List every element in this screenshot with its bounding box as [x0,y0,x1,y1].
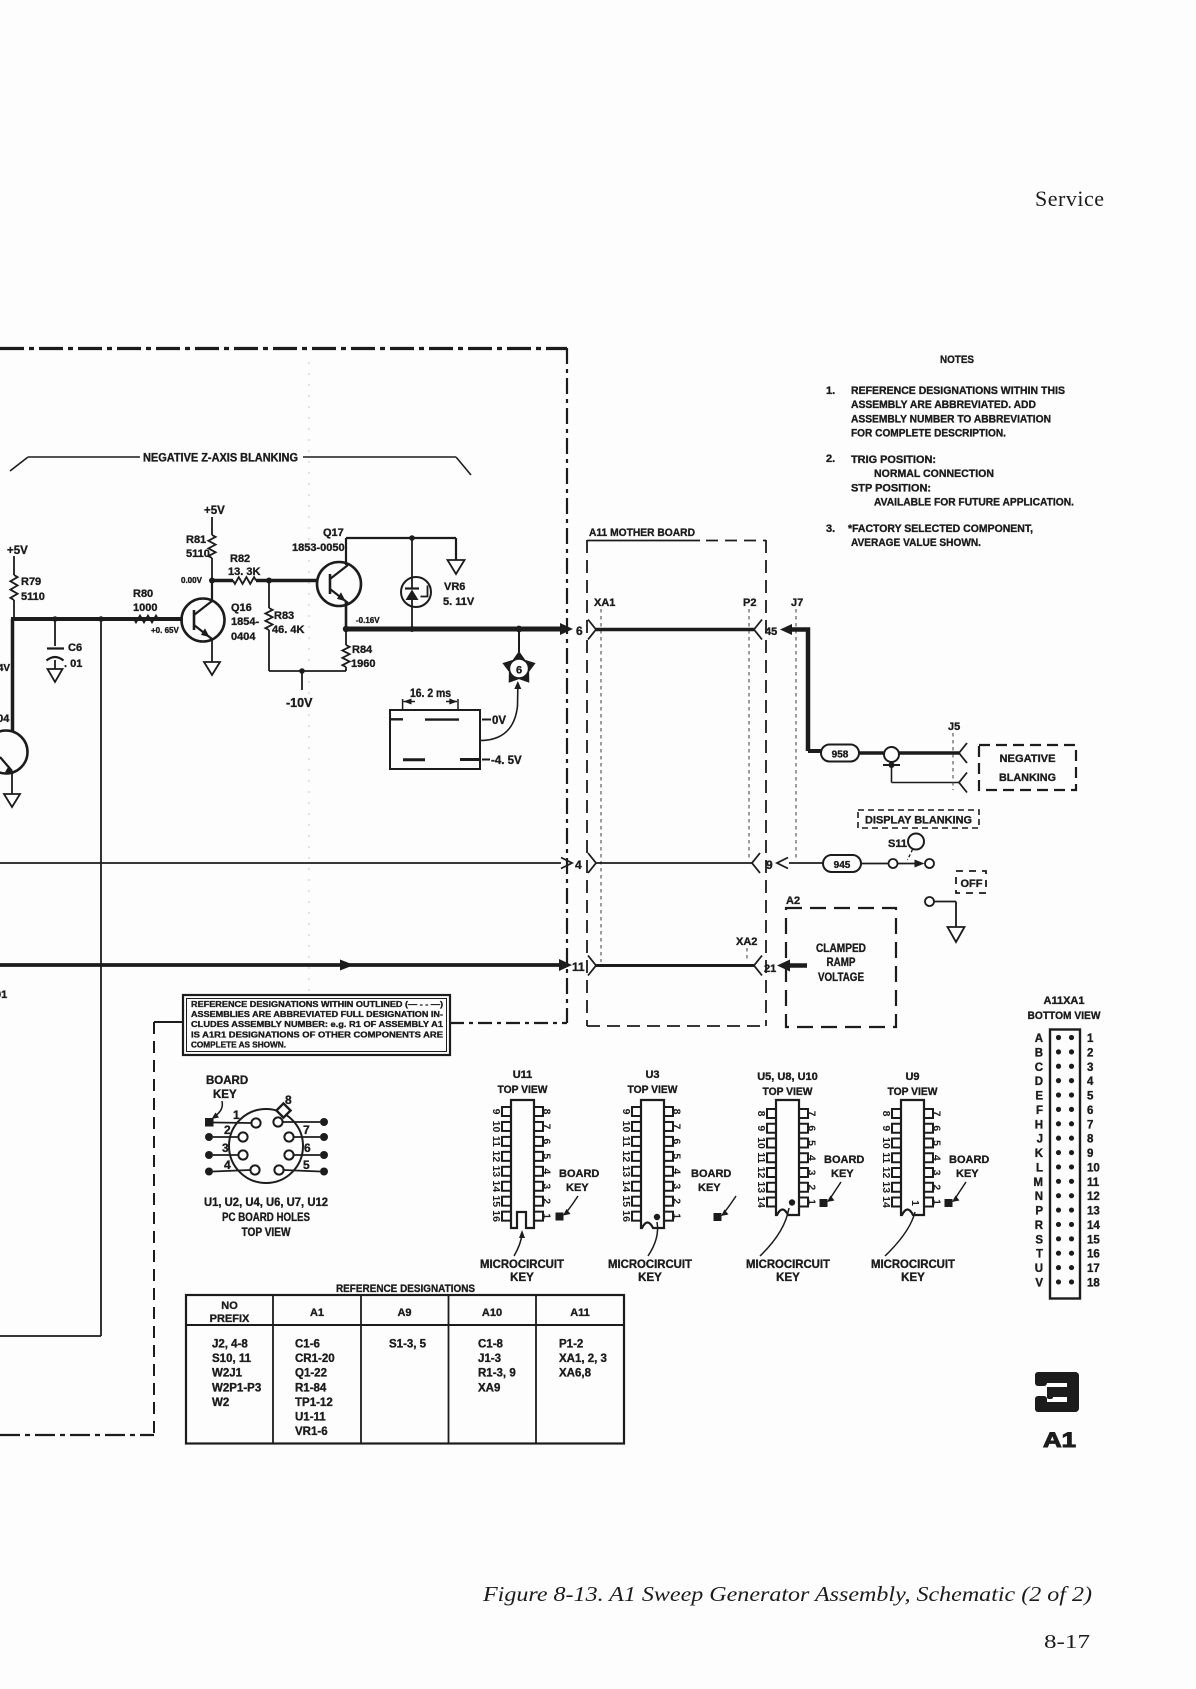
svg-text:V: V [1035,1277,1043,1289]
svg-text:1: 1 [541,1213,553,1219]
svg-text:4: 4 [224,1158,231,1172]
U3 pin 12 / 5 [632,1152,641,1161]
svg-text:U5, U8, U10: U5, U8, U10 [757,1071,818,1083]
svg-text:BOARD: BOARD [691,1168,731,1180]
U9 pin 12 / 3 [892,1168,901,1177]
svg-text:Q1-22: Q1-22 [295,1368,327,1380]
svg-text:5: 5 [541,1153,553,1159]
reference designations note box [183,995,450,1055]
ground arrow top right [448,560,465,574]
svg-text:B: B [1035,1047,1043,1059]
svg-text:TOP VIEW: TOP VIEW [628,1084,679,1096]
svg-text:H: H [1035,1119,1043,1131]
mother board right boundary [765,540,767,1026]
svg-text:XA6,8: XA6,8 [559,1368,592,1380]
svg-text:TOP VIEW: TOP VIEW [242,1227,291,1239]
svg-text:2: 2 [1087,1047,1093,1059]
svg-text:1: 1 [233,1108,240,1122]
svg-text:1: 1 [931,1199,943,1205]
svg-text:MICROCIRCUIT: MICROCIRCUIT [480,1259,564,1271]
resistor R81 [208,535,215,558]
svg-text:13: 13 [1087,1206,1100,1218]
svg-text:A2: A2 [786,895,800,907]
svg-text:R81: R81 [186,534,206,546]
svg-text:Q16: Q16 [231,602,252,614]
svg-text:10: 10 [880,1137,892,1149]
svg-text:12: 12 [620,1151,632,1163]
svg-text:MICROCIRCUIT: MICROCIRCUIT [746,1259,830,1271]
svg-text:6: 6 [516,665,522,677]
node Q17 emitter/R84 junction [343,626,349,632]
svg-text:6: 6 [1087,1105,1093,1117]
wire OFF to ground [934,901,956,903]
socket hole pin 4 [250,1165,259,1174]
svg-text:NOTES: NOTES [940,354,974,366]
A11XA1 row E/5 [1056,1092,1061,1097]
socket hole pin 1 [251,1118,260,1127]
wire Q17 emitter down [345,602,348,629]
svg-text:9: 9 [620,1109,632,1115]
resistor R79 [10,575,17,600]
node junction vertical feed [98,616,104,622]
svg-text:VR1-6: VR1-6 [295,1426,328,1438]
wire main base line left [11,617,183,621]
board key arrow [215,1101,222,1116]
svg-text:9: 9 [490,1109,502,1115]
transistor Q16 [182,599,225,642]
svg-text:FOR COMPLETE DESCRIPTION.: FOR COMPLETE DESCRIPTION. [851,428,1006,440]
wire connector shield to J5 bottom [891,765,893,783]
waveform 0V label [482,719,491,721]
svg-text:2: 2 [931,1184,943,1190]
svg-text:U: U [1035,1263,1043,1275]
svg-text:7: 7 [931,1111,943,1117]
U9 pin 11 / 4 [892,1153,901,1162]
svg-text:18: 18 [1087,1277,1100,1289]
A11XA1 row D/4 [1056,1078,1061,1083]
svg-text:3: 3 [806,1170,818,1176]
svg-text:5. 11V: 5. 11V [443,596,475,608]
svg-text:10: 10 [620,1121,632,1133]
svg-text:1960: 1960 [351,658,375,670]
capacitor C6 [54,619,56,646]
svg-text:8: 8 [285,1093,292,1107]
svg-text:CLUDES ASSEMBLY NUMBER: e.g.: CLUDES ASSEMBLY NUMBER: e.g. R1 OF ASSEM… [191,1019,443,1029]
svg-text:9: 9 [880,1125,892,1131]
wire top rail corner down [455,538,457,560]
svg-text:4: 4 [931,1155,943,1161]
svg-text:A11: A11 [570,1307,590,1319]
svg-text:DISPLAY BLANKING: DISPLAY BLANKING [865,815,972,827]
wire stub clamped ramp [789,963,807,968]
node VR6 top junction [409,535,415,541]
socket hole pin 5 [274,1165,283,1174]
svg-text:3: 3 [541,1183,553,1189]
svg-text:16: 16 [490,1210,502,1222]
svg-text:R80: R80 [133,588,153,600]
wire long vertical down-left [100,619,102,1336]
U5 microcircuit key callout [760,1208,789,1256]
svg-text:7: 7 [1087,1119,1093,1131]
svg-text:12: 12 [755,1167,767,1179]
reference designations table frame [186,1295,624,1444]
svg-text:10: 10 [1087,1162,1100,1174]
waveform box [390,710,480,769]
svg-text:Service: Service [1035,186,1104,211]
svg-text:1854-: 1854- [231,616,259,628]
svg-text:W2P1-P3: W2P1-P3 [212,1382,261,1394]
node star junction [516,626,523,633]
svg-text:A: A [1035,1033,1043,1045]
svg-text:R79: R79 [21,576,41,588]
star waveform node 6 [518,629,520,652]
svg-text:TOP VIEW: TOP VIEW [888,1086,939,1098]
svg-text:J7: J7 [791,597,803,609]
U11 pin 13 / 4 [502,1167,511,1176]
svg-text:KEY: KEY [510,1272,534,1284]
svg-text:ASSEMBLY ARE ABBREVIATED. ADD: ASSEMBLY ARE ABBREVIATED. ADD [851,399,1036,411]
svg-text:PC BOARD HOLES: PC BOARD HOLES [222,1212,310,1224]
svg-text:Q17: Q17 [323,527,344,539]
svg-text:5110: 5110 [21,591,45,603]
assembly A2 box [786,908,896,1027]
svg-text:P1-2: P1-2 [559,1339,583,1351]
U9 board key [945,1199,953,1207]
svg-text:13: 13 [490,1165,502,1177]
node -10V junction [299,668,305,674]
section number 3 [1035,1372,1079,1412]
svg-text:*FACTORY SELECTED COMPONENT,: *FACTORY SELECTED COMPONENT, [848,523,1033,535]
svg-text:16: 16 [1087,1249,1100,1261]
svg-text:12: 12 [880,1167,892,1179]
arrow into P2-45 [780,624,792,635]
svg-text:T: T [1036,1249,1043,1261]
board key square [205,1118,214,1127]
ground below OFF [948,927,965,942]
svg-text:404: 404 [0,713,10,725]
svg-text:3: 3 [1087,1062,1093,1074]
svg-text:BOARD: BOARD [206,1075,248,1087]
svg-text:5: 5 [931,1140,943,1146]
A11XA1 row K/9 [1056,1150,1061,1155]
U11 microcircuit key callout [514,1234,522,1256]
assembly A1 outline top border [0,347,567,350]
svg-text:3: 3 [931,1170,943,1176]
svg-text:A11 MOTHER BOARD: A11 MOTHER BOARD [589,527,695,539]
svg-text:17: 17 [1087,1263,1100,1275]
svg-text:8: 8 [671,1109,683,1115]
wire junction to Q17 base [269,579,318,583]
svg-text:TOP VIEW: TOP VIEW [763,1086,814,1098]
svg-text:13: 13 [755,1181,767,1193]
svg-text:XA9: XA9 [478,1382,500,1394]
svg-text:8: 8 [880,1111,892,1117]
A11XA1 row C/3 [1056,1064,1061,1069]
svg-text:KEY: KEY [698,1182,721,1194]
U9 pin 9 / 6 [892,1124,901,1133]
svg-text:4: 4 [541,1168,553,1174]
svg-text:R83: R83 [274,610,294,622]
svg-text:5: 5 [1087,1091,1094,1103]
svg-text:45: 45 [765,626,777,638]
U3 pin 14 / 3 [632,1182,641,1191]
svg-text:KEY: KEY [213,1089,237,1101]
wire 958 to connector [859,751,884,755]
switch S11 contact right [925,859,934,868]
svg-text:C1-8: C1-8 [478,1339,504,1351]
assembly A1 outline left border (dashed vertical) [153,1022,155,1435]
negative blanking destination box [979,745,1076,790]
svg-text:01: 01 [0,989,7,1001]
svg-text:14: 14 [755,1196,767,1208]
svg-text:8: 8 [1087,1134,1094,1146]
svg-text:S11: S11 [888,838,907,850]
svg-text:6: 6 [671,1138,683,1144]
mother board top bracket [587,540,700,542]
svg-text:P: P [1035,1206,1043,1218]
svg-text:12: 12 [490,1151,502,1163]
svg-text:15: 15 [1087,1234,1100,1246]
ground below left transistor [4,794,20,807]
svg-text:CR1-20: CR1-20 [295,1353,335,1365]
svg-text:NEGATIVE Z-AXIS BLANKING: NEGATIVE Z-AXIS BLANKING [143,453,298,465]
svg-text:3.: 3. [826,523,835,535]
wire left transistor emitter down [11,773,13,794]
connector bracket XA1-6 [588,620,596,640]
U5, U8, U10 pin 13 / 2 [767,1183,776,1192]
A11XA1 row T/16 [1056,1251,1061,1256]
svg-text:U9: U9 [905,1071,919,1083]
svg-text:F: F [1036,1105,1043,1117]
svg-text:6: 6 [806,1125,818,1131]
svg-text:2: 2 [806,1184,818,1190]
U3 pin 16 / 1 [632,1212,641,1221]
U5, U8, U10 pin 9 / 6 [767,1124,776,1133]
wire J7 to P2 thick [791,627,810,632]
svg-text:R82: R82 [230,553,250,565]
svg-text:4: 4 [671,1168,683,1174]
socket circle [229,1109,303,1183]
A11XA1 row A/1 [1056,1035,1061,1040]
svg-text:XA2: XA2 [736,936,757,948]
svg-text:6: 6 [576,624,583,638]
U5, U8, U10 pin 8 / 7 [767,1109,776,1118]
svg-text:CLAMPED: CLAMPED [816,943,866,955]
wire pin 11 row [0,963,561,967]
svg-text:COMPLETE AS SHOWN.: COMPLETE AS SHOWN. [191,1039,286,1049]
svg-text:16. 2 ms: 16. 2 ms [410,688,451,700]
svg-text:KEY: KEY [638,1272,662,1284]
svg-text:R84: R84 [352,644,373,656]
svg-text:8: 8 [541,1109,553,1115]
svg-text:15: 15 [490,1195,502,1207]
svg-text:KEY: KEY [901,1272,925,1284]
A11XA1 row M/11 [1056,1179,1061,1184]
U11 pin 10 / 7 [502,1122,511,1131]
svg-text:XA1: XA1 [594,597,615,609]
svg-text:0V: 0V [492,715,506,727]
svg-text:OFF: OFF [961,878,983,890]
svg-text:14: 14 [620,1180,632,1192]
A11XA1 row J/8 [1056,1136,1061,1141]
svg-text:5: 5 [806,1140,818,1146]
wire Q16 collector up [211,581,213,602]
svg-text:1: 1 [806,1199,818,1205]
svg-text:1000: 1000 [133,602,157,614]
svg-text:4: 4 [806,1155,818,1161]
bracket J5 bottom [959,773,967,793]
svg-text:-10V: -10V [286,696,313,710]
arrow into XA2-21 [777,960,790,972]
zener diode VR6 [411,538,413,578]
wire R81 junction to R82 [212,579,233,583]
svg-text:2: 2 [541,1198,553,1204]
wire XA1-6 to P2-45 [596,628,754,632]
assembly A1 outline right border [566,348,568,1023]
mother board bottom boundary [587,1025,766,1027]
svg-text:14: 14 [1087,1220,1100,1232]
svg-text:15: 15 [620,1195,632,1207]
svg-text:11: 11 [572,960,585,974]
svg-text:NORMAL CONNECTION: NORMAL CONNECTION [874,468,994,480]
node R82/R83/Q17 junction [266,578,272,584]
svg-text:R1-3, 9: R1-3, 9 [478,1368,516,1380]
svg-text:S10, 11: S10, 11 [212,1353,252,1365]
svg-text:1: 1 [1087,1033,1094,1045]
connector bracket P2-45 [754,620,762,640]
svg-text:9: 9 [766,858,773,872]
svg-text:1: 1 [909,1200,921,1206]
svg-text:A1: A1 [1043,1429,1076,1452]
svg-text:C6: C6 [68,642,82,654]
svg-text:L: L [1036,1162,1043,1174]
svg-text:J2, 4-8: J2, 4-8 [212,1339,248,1351]
U5, U8, U10 pin 12 / 3 [767,1168,776,1177]
U9 pin 14 / 1 [892,1198,901,1207]
svg-text:S: S [1035,1234,1043,1246]
svg-text:16: 16 [620,1210,632,1222]
U3 pin 11 / 6 [632,1137,641,1146]
A11XA1 row R/14 [1056,1222,1061,1227]
svg-text:ASSEMBLY NUMBER TO ABBREVIATIO: ASSEMBLY NUMBER TO ABBREVIATION [851,413,1051,425]
svg-text:6: 6 [931,1125,943,1131]
svg-text:W2: W2 [212,1397,229,1409]
socket hole pin 6 [284,1150,293,1159]
svg-text:+4V: +4V [0,663,10,674]
svg-text:U1, U2, U4, U6, U7, U12: U1, U2, U4, U6, U7, U12 [204,1197,328,1209]
svg-text:A11XA1: A11XA1 [1044,995,1085,1007]
svg-text:9: 9 [755,1125,767,1131]
arrow from waveform into star [480,689,518,741]
U3 pin 15 / 2 [632,1197,641,1206]
svg-text:A9: A9 [397,1307,411,1319]
bracket J5 top [959,743,967,763]
svg-text:2: 2 [671,1198,683,1204]
U3 pin 13 / 4 [632,1167,641,1176]
svg-text:5: 5 [303,1158,310,1172]
svg-text:11: 11 [880,1152,892,1163]
wire Q17 collector top rail [346,537,456,539]
svg-text:U1-11: U1-11 [295,1412,326,1424]
svg-text:N: N [1035,1191,1043,1203]
svg-text:11: 11 [755,1152,767,1163]
U5, U8, U10 pin 10 / 5 [767,1139,776,1148]
svg-text:1: 1 [671,1213,683,1219]
svg-text:12: 12 [1087,1191,1100,1203]
connector bracket XA1-11 [588,956,596,976]
coax connector W2J1 [884,747,899,762]
wire pin 6 into XA1 [560,623,573,635]
svg-text:NO: NO [221,1300,238,1312]
svg-text:TRIG POSITION:: TRIG POSITION: [851,454,936,466]
svg-text:13: 13 [620,1165,632,1177]
node 0.00V junction [209,578,215,584]
svg-text:2.: 2. [826,453,835,465]
svg-text:C: C [1035,1062,1043,1074]
wire corner down to Q at left edge [11,619,15,731]
svg-text:14: 14 [490,1180,502,1192]
svg-text:-0.16V: -0.16V [356,616,380,625]
svg-text:BOARD: BOARD [559,1168,599,1180]
svg-text:VR6: VR6 [444,581,465,593]
fold crease line [308,362,310,1008]
U3 pin 9 / 8 [632,1107,641,1116]
wire connector to J5 top [899,751,959,755]
open arrow into P2-9 [777,858,788,869]
wire Q16 emitter down [211,639,213,662]
svg-text:BOARD: BOARD [824,1154,864,1166]
display blanking box [858,810,979,828]
arrow mid pin 11 [340,960,354,971]
U9 pin 8 / 7 [892,1109,901,1118]
A11XA1 row N/12 [1056,1193,1061,1198]
svg-text:Figure 8-13. A1 Sweep Generat: Figure 8-13. A1 Sweep Generator Assembly… [482,1582,1092,1606]
svg-text:TOP VIEW: TOP VIEW [498,1084,549,1096]
wire output rail pin6 [346,627,561,632]
svg-text:3: 3 [222,1141,229,1155]
svg-text:8: 8 [755,1111,767,1117]
svg-text:5110: 5110 [186,548,210,560]
U5 microcircuit key dot [789,1199,795,1205]
svg-text:BOTTOM VIEW: BOTTOM VIEW [1028,1010,1102,1022]
U3 board key [714,1213,722,1221]
svg-text:R1-84: R1-84 [295,1382,327,1394]
negative z-axis blanking bracket [10,457,28,471]
wire Q17 collector up [345,538,347,565]
svg-text:+0. 65V: +0. 65V [151,626,179,635]
svg-text:REFERENCE DESIGNATIONS: REFERENCE DESIGNATIONS [336,1283,475,1295]
svg-text:REFERENCE DESIGNATIONS WITHIN: REFERENCE DESIGNATIONS WITHIN OUTLINED (… [191,999,443,1009]
assembly A1 outline bottom border right segment [450,1022,567,1024]
svg-text:46. 4K: 46. 4K [272,624,304,636]
U11 pin 12 / 5 [502,1152,511,1161]
svg-text:10: 10 [490,1121,502,1133]
mother board left boundary [586,540,588,1026]
A11XA1 row H/7 [1056,1121,1061,1126]
A11XA1 row F/6 [1056,1107,1061,1112]
svg-text:U11: U11 [513,1069,533,1081]
wire pin 4 row [0,862,561,864]
U11 pin 15 / 2 [502,1197,511,1206]
svg-text:2: 2 [224,1123,231,1137]
svg-text:W2J1: W2J1 [212,1368,243,1380]
connector bracket XA1-4 [588,853,596,873]
svg-text:. 01: . 01 [64,658,82,670]
U9 pin 13 / 2 [892,1183,901,1192]
U9 pin 10 / 5 [892,1139,901,1148]
svg-text:RAMP: RAMP [827,957,856,969]
svg-text:0.00V: 0.00V [181,576,203,585]
